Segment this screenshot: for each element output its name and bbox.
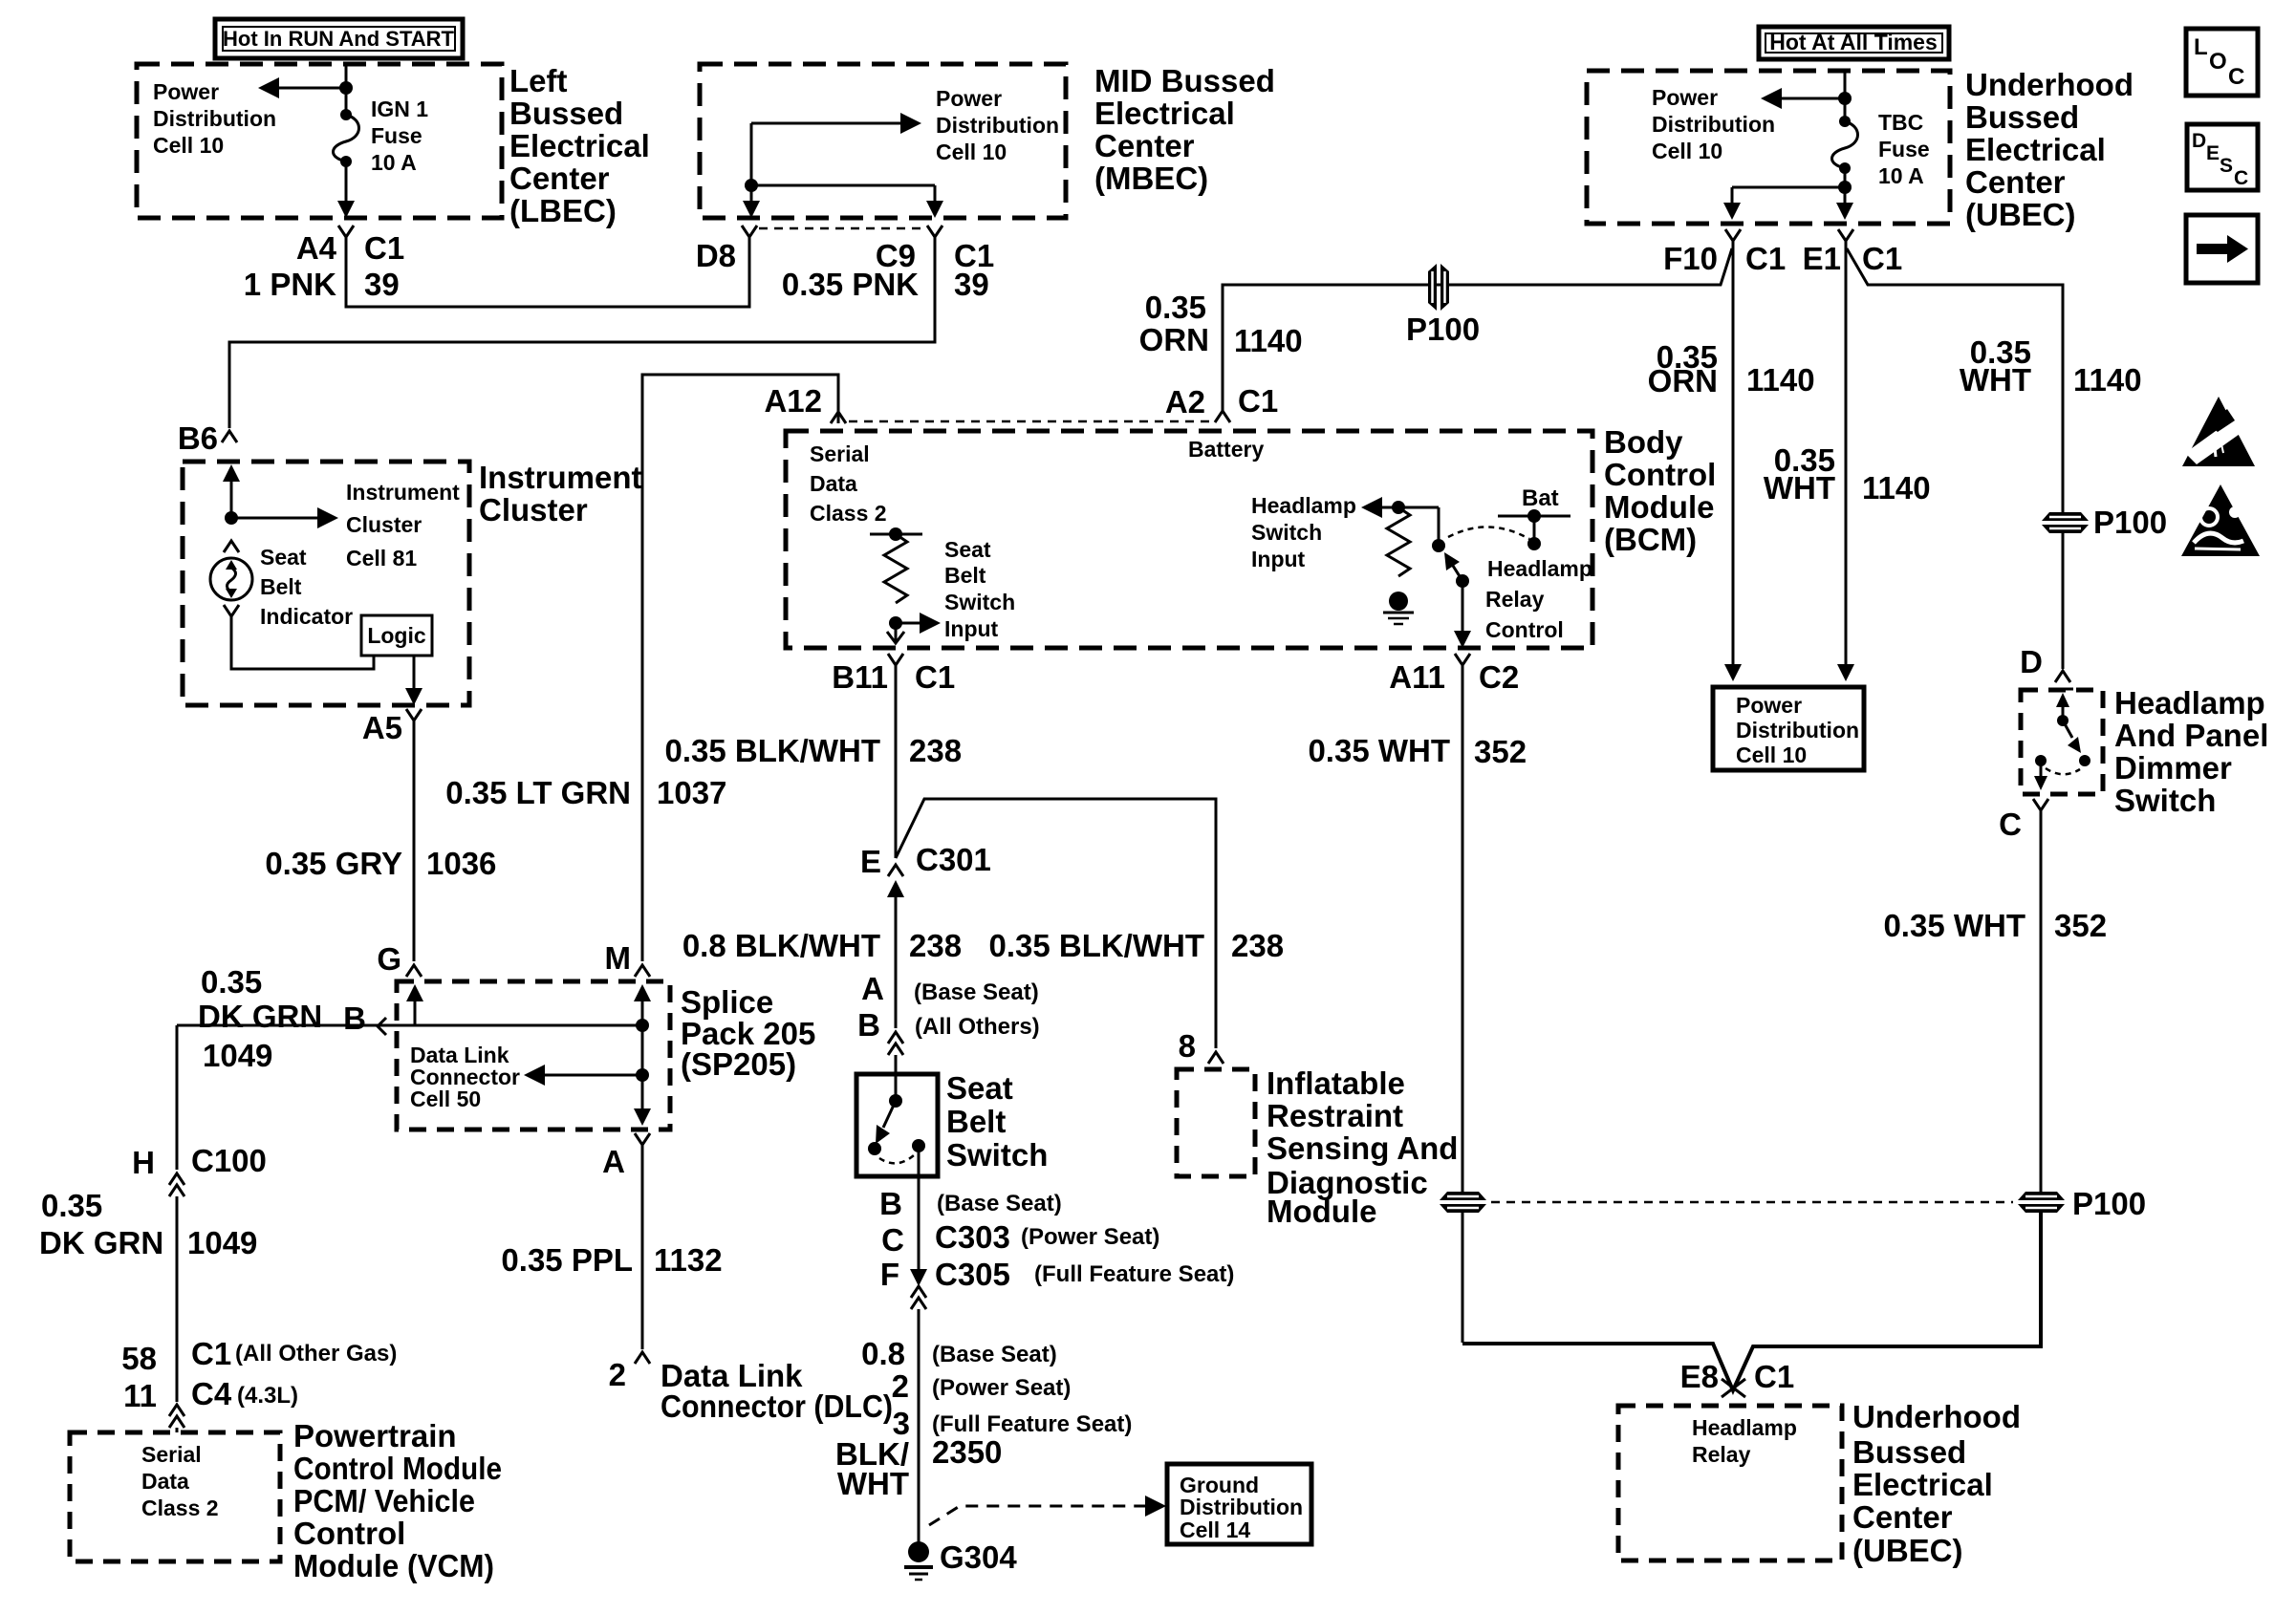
connector A below splice — [635, 1133, 650, 1158]
svg-text:Belt: Belt — [944, 563, 986, 588]
svg-text:Relay: Relay — [1485, 587, 1545, 612]
svg-text:B: B — [857, 1007, 880, 1043]
reference box: Ground Distribution Cell 14 — [1167, 1464, 1311, 1544]
svg-text:Cell 14: Cell 14 — [1180, 1517, 1250, 1542]
svg-text:A5: A5 — [362, 710, 402, 745]
svg-text:0.35: 0.35 — [201, 964, 262, 1000]
svg-text:(UBEC): (UBEC) — [1965, 197, 2075, 232]
svg-text:B: B — [343, 1001, 366, 1036]
label: Serial Data Class 2 (BCM) — [810, 441, 887, 526]
svg-text:A2: A2 — [1165, 384, 1205, 420]
svg-text:Center: Center — [1852, 1499, 1953, 1535]
svg-text:0.35 BLK/WHT: 0.35 BLK/WHT — [988, 928, 1204, 963]
module box: Inflatable Restraint Sensing And Diagnostic Module — [1177, 1069, 1255, 1176]
svg-text:1132: 1132 — [654, 1242, 723, 1278]
svg-text:Center: Center — [509, 161, 610, 196]
svg-text:0.35 PNK: 0.35 PNK — [782, 267, 919, 302]
inline connector P100 (right lower) — [2018, 1192, 2065, 1213]
module box: Underhood Bussed Electrical Center (UBEC) — [1587, 71, 1950, 224]
wire: C100 down to PCM — [176, 1196, 179, 1402]
icon: SIR warning triangle — [2181, 484, 2260, 556]
svg-text:C305: C305 — [935, 1257, 1010, 1292]
svg-text:Body: Body — [1604, 424, 1683, 460]
wire: A2 up and left to P100 and F10 — [1223, 285, 1721, 411]
inline connector P100 (top, vertical) — [1428, 264, 1449, 311]
svg-text:Hot At All Times: Hot At All Times — [1769, 30, 1938, 54]
connector B chevron — [378, 1018, 386, 1035]
label: inflatable restraint name — [1267, 1065, 1458, 1229]
svg-text:C1: C1 — [1754, 1359, 1794, 1394]
svg-text:Connector (DLC): Connector (DLC) — [661, 1388, 893, 1424]
svg-text:D: D — [2192, 130, 2206, 152]
connector A12 — [831, 412, 846, 423]
connector A4 C1 at LBEC — [338, 226, 354, 250]
label: PCM/VCM name — [293, 1418, 502, 1583]
svg-text:A4: A4 — [296, 230, 337, 266]
svg-text:TBC: TBC — [1878, 110, 1923, 135]
svg-text:Control: Control — [1485, 617, 1564, 642]
svg-text:Splice: Splice — [681, 984, 773, 1020]
svg-text:Seat: Seat — [944, 537, 991, 562]
svg-text:IGN 1: IGN 1 — [371, 97, 428, 121]
reference box: Power Distribution Cell 10 — [1713, 687, 1864, 770]
fuse TBC 10 A — [1832, 116, 1858, 174]
label: Instrument Cluster name — [479, 460, 642, 527]
svg-text:(Power Seat): (Power Seat) — [1021, 1224, 1159, 1250]
svg-text:C1: C1 — [1238, 383, 1278, 419]
connector C below dimmer switch — [2033, 799, 2048, 810]
module box: PCM/VCM — [70, 1432, 280, 1561]
module box: Headlamp Relay / UBEC — [1618, 1406, 1842, 1560]
svg-text:C1: C1 — [1862, 241, 1902, 276]
svg-text:Distribution: Distribution — [153, 106, 276, 131]
svg-text:C4: C4 — [191, 1376, 232, 1411]
inline connector P100 (left lower, on A11 wire) — [1440, 1192, 1486, 1213]
svg-text:238: 238 — [909, 733, 962, 768]
svg-text:Distribution: Distribution — [1652, 112, 1775, 137]
svg-text:Data: Data — [141, 1469, 189, 1494]
svg-text:Instrument: Instrument — [346, 480, 460, 505]
svg-text:11: 11 — [123, 1378, 157, 1413]
connector A11 C2 — [1455, 654, 1470, 680]
svg-text:(Full Feature Seat): (Full Feature Seat) — [932, 1411, 1132, 1437]
svg-text:C: C — [1999, 807, 2022, 842]
svg-text:Sensing And: Sensing And — [1267, 1130, 1458, 1166]
svg-text:C303: C303 — [935, 1219, 1010, 1255]
svg-text:DK GRN: DK GRN — [198, 999, 322, 1034]
svg-text:Cell 10: Cell 10 — [936, 140, 1007, 164]
dashed connector link P100 to P100 — [1491, 1201, 2013, 1204]
branch wire to inflatable restraint module — [896, 799, 1216, 1048]
svg-text:Inflatable: Inflatable — [1267, 1065, 1405, 1101]
svg-text:Switch: Switch — [944, 590, 1015, 614]
svg-text:G304: G304 — [940, 1539, 1017, 1575]
svg-text:Class 2: Class 2 — [810, 501, 887, 526]
wire: C down right side — [2040, 810, 2043, 1192]
svg-text:0.35 LT GRN: 0.35 LT GRN — [445, 775, 631, 810]
svg-text:(Full Feature Seat): (Full Feature Seat) — [1034, 1261, 1234, 1287]
seat belt indicator lamp — [210, 558, 252, 600]
svg-text:(Base Seat): (Base Seat) — [937, 1191, 1062, 1216]
label: Seat Belt Switch — [946, 1070, 1048, 1173]
label: Power Distribution Cell 10 (UBEC) — [1652, 85, 1775, 163]
connector B6 at Instrument Cluster — [222, 431, 237, 442]
svg-text:E: E — [860, 844, 881, 879]
svg-text:Cluster: Cluster — [479, 492, 588, 527]
connector D at dimmer switch — [2055, 671, 2070, 682]
svg-text:Distribution: Distribution — [1180, 1495, 1303, 1519]
label: Seat Belt Indicator — [260, 545, 353, 629]
label: TBC Fuse 10 A — [1878, 110, 1930, 188]
svg-text:S: S — [2220, 155, 2233, 177]
switch: headlamp relay control — [1438, 507, 1440, 541]
wire: B11 down — [895, 680, 898, 858]
svg-text:0.8: 0.8 — [861, 1336, 905, 1371]
connector E C301 — [887, 865, 904, 903]
connector B11 C1 — [888, 654, 903, 680]
svg-text:238: 238 — [909, 928, 962, 963]
wire: P100 to D — [2062, 533, 2065, 669]
svg-text:A: A — [602, 1144, 625, 1179]
inline connector P100 (right upper) — [2042, 512, 2089, 533]
svg-text:WHT: WHT — [1764, 470, 1835, 506]
svg-text:C1: C1 — [1745, 241, 1786, 276]
svg-text:A11: A11 — [1389, 659, 1445, 695]
label: Headlamp Relay — [1692, 1415, 1797, 1467]
wire label: 0.35 DK GRN 1049 lower — [39, 1188, 257, 1260]
splice: arrow to Data Link Connector Cell 50 — [636, 1068, 649, 1082]
svg-text:Control: Control — [1604, 457, 1716, 492]
connector M at splice pack — [635, 965, 650, 977]
splice bus: horizontal to B — [177, 1024, 642, 1027]
Logic box — [361, 615, 432, 656]
label: Power Distribution Cell 10 (LBEC) — [153, 79, 276, 158]
svg-text:C2: C2 — [1479, 659, 1519, 695]
svg-text:And Panel: And Panel — [2114, 718, 2268, 753]
svg-text:Electrical: Electrical — [1094, 96, 1235, 131]
label: Data Link Connector (DLC) — [661, 1358, 893, 1424]
svg-text:Fuse: Fuse — [1878, 137, 1930, 161]
svg-text:(All Other Gas): (All Other Gas) — [235, 1341, 397, 1367]
svg-text:D8: D8 — [696, 238, 736, 273]
svg-text:C1: C1 — [364, 230, 404, 266]
arrow to Headlamp Switch Input label — [1361, 497, 1382, 518]
svg-text:(UBEC): (UBEC) — [1852, 1533, 1962, 1568]
svg-text:E1: E1 — [1803, 241, 1841, 276]
svg-text:Power: Power — [1652, 85, 1718, 110]
svg-text:C: C — [881, 1222, 904, 1258]
svg-text:0.35 WHT: 0.35 WHT — [1308, 733, 1450, 768]
svg-text:Underhood: Underhood — [1965, 67, 2134, 102]
connector link A12 to A2 — [849, 420, 1212, 423]
connector A5 — [406, 709, 422, 734]
svg-text:Module (VCM): Module (VCM) — [293, 1548, 494, 1583]
svg-text:Power: Power — [1736, 693, 1802, 718]
connector G at splice pack — [406, 965, 422, 977]
svg-text:Bat: Bat — [1522, 485, 1559, 511]
svg-text:Headlamp: Headlamp — [2114, 685, 2265, 721]
svg-text:1140: 1140 — [2073, 362, 2142, 398]
svg-text:(Base Seat): (Base Seat) — [932, 1342, 1057, 1367]
svg-text:Switch: Switch — [1251, 520, 1322, 545]
node on headlamp feed — [1392, 501, 1405, 514]
svg-text:Data: Data — [810, 471, 857, 496]
svg-text:Indicator: Indicator — [260, 604, 353, 629]
svg-text:0.35 PPL: 0.35 PPL — [501, 1242, 633, 1278]
svg-text:(All Others): (All Others) — [915, 1014, 1040, 1040]
svg-text:10 A: 10 A — [1878, 163, 1924, 188]
svg-text:(BCM): (BCM) — [1604, 522, 1697, 557]
svg-text:Cell 50: Cell 50 — [410, 1087, 481, 1111]
svg-text:Control Module: Control Module — [293, 1451, 502, 1486]
wire: MBEC internal tee — [750, 123, 753, 185]
svg-text:0.35 BLK/WHT: 0.35 BLK/WHT — [664, 733, 880, 768]
svg-text:G: G — [377, 941, 401, 977]
node: junction at fuse top — [339, 81, 353, 95]
svg-text:WHT: WHT — [1960, 362, 2031, 398]
connector 58/11 C1/C4 at PCM — [169, 1405, 184, 1428]
wire: A5 down to G — [413, 734, 416, 961]
svg-text:Serial: Serial — [810, 441, 870, 466]
splice: exit arrow to A — [641, 1075, 644, 1108]
connector F10 C1 — [1725, 229, 1741, 252]
svg-text:Center: Center — [1094, 128, 1195, 163]
svg-text:0.35 WHT: 0.35 WHT — [1883, 908, 2025, 943]
wire: F10 branch to P100/A2 — [1449, 248, 1732, 285]
svg-text:C301: C301 — [916, 842, 991, 877]
label: BCM name — [1604, 424, 1716, 557]
svg-text:1140: 1140 — [1862, 470, 1931, 506]
svg-text:C100: C100 — [191, 1143, 267, 1178]
svg-text:ORN: ORN — [1648, 363, 1718, 398]
arrow to Power Distribution Cell 10 — [277, 87, 346, 90]
svg-text:(4.3L): (4.3L) — [237, 1383, 298, 1409]
ground: BCM internal — [1383, 592, 1414, 624]
svg-text:(SP205): (SP205) — [681, 1046, 796, 1082]
svg-text:WHT: WHT — [837, 1466, 909, 1501]
splice: M entry arrow — [634, 984, 651, 1001]
svg-text:Powertrain: Powertrain — [293, 1418, 457, 1453]
svg-text:B: B — [879, 1186, 902, 1221]
connector A2 C1 — [1215, 411, 1230, 422]
svg-text:Electrical: Electrical — [1965, 132, 2106, 167]
svg-text:E: E — [2206, 142, 2220, 164]
module box: Headlamp And Panel Dimmer Switch — [2021, 690, 2103, 794]
svg-text:Control: Control — [293, 1516, 405, 1551]
svg-text:B11: B11 — [832, 659, 888, 695]
svg-text:Dimmer: Dimmer — [2114, 750, 2232, 785]
arrow to Power Distribution Cell 10 (UBEC) — [1780, 97, 1845, 100]
label: Instrument Cluster Cell 81 — [346, 480, 460, 570]
svg-text:Bussed: Bussed — [509, 96, 623, 131]
svg-text:PCM/ Vehicle: PCM/ Vehicle — [293, 1483, 475, 1518]
wire: resistor to BCM edge — [895, 623, 898, 642]
label: Power Distribution Cell 10 (MBEC) — [936, 86, 1059, 164]
wire: fuse to UBEC edge, twin drops — [1844, 168, 1847, 187]
resistor: Seat Belt Switch Input (BCM) — [870, 527, 922, 630]
label: Serial Data Class 2 (PCM) — [141, 1442, 219, 1520]
svg-text:(Base Seat): (Base Seat) — [914, 979, 1039, 1005]
svg-text:Bussed: Bussed — [1965, 99, 2079, 135]
svg-text:Input: Input — [1251, 547, 1306, 571]
splice: G entry arrow — [406, 984, 423, 1001]
module box: Splice Pack 205 — [397, 981, 670, 1130]
connector chevron below indicator — [224, 605, 239, 616]
connector chevron above indicator — [224, 541, 239, 552]
svg-text:(MBEC): (MBEC) — [1094, 161, 1208, 196]
wire: C301 down to seat belt switch — [895, 903, 898, 1028]
svg-text:Power: Power — [936, 86, 1002, 111]
svg-text:2: 2 — [609, 1357, 626, 1392]
svg-text:1140: 1140 — [1746, 362, 1815, 398]
svg-text:Battery: Battery — [1188, 437, 1264, 462]
svg-text:C1: C1 — [191, 1336, 231, 1371]
svg-text:1049: 1049 — [203, 1038, 272, 1073]
label: Seat Belt Switch Input — [944, 537, 1015, 641]
component box: Seat Belt Switch — [856, 1074, 938, 1176]
connector C303/C305 double chevron — [911, 1286, 926, 1309]
svg-text:Switch: Switch — [2114, 783, 2216, 818]
connector D8 at MBEC — [742, 226, 757, 250]
svg-text:P100: P100 — [2072, 1186, 2146, 1221]
wire: bottom run to E8 — [1462, 1213, 2041, 1390]
svg-text:0.35: 0.35 — [41, 1188, 102, 1223]
label: LBEC name — [509, 63, 650, 228]
svg-text:Belt: Belt — [260, 574, 302, 599]
svg-text:10 A: 10 A — [371, 150, 417, 175]
svg-text:Distribution: Distribution — [936, 113, 1059, 138]
svg-text:Seat: Seat — [260, 545, 307, 570]
svg-text:Left: Left — [509, 63, 568, 98]
svg-text:Relay: Relay — [1692, 1442, 1751, 1467]
svg-text:DK GRN: DK GRN — [39, 1225, 163, 1260]
connector E8 C1 — [1722, 1379, 1745, 1397]
module box: Body Control Module (BCM) — [786, 431, 1592, 648]
label: Data Link Connector Cell 50 — [410, 1043, 520, 1111]
connector above seat belt switch — [888, 1032, 903, 1055]
svg-text:Bussed: Bussed — [1852, 1434, 1966, 1470]
svg-text:P100: P100 — [2093, 505, 2167, 540]
wire: E1 branch to right side — [1847, 248, 2063, 512]
svg-text:A12: A12 — [764, 383, 822, 419]
icon: DESC box — [2187, 124, 2258, 190]
node: cluster tee — [225, 511, 238, 525]
svg-text:E8: E8 — [1680, 1359, 1719, 1394]
resistor: headlamp switch pull — [1387, 507, 1410, 576]
svg-text:B6: B6 — [178, 420, 218, 456]
wire label: 0.35 ORN 1140 (F10) — [1648, 339, 1815, 398]
svg-text:2350: 2350 — [932, 1434, 1002, 1470]
switch: dimmer internals — [2034, 689, 2090, 790]
svg-text:Cluster: Cluster — [346, 512, 422, 537]
wire: C9/C1 down and across to B6 — [229, 250, 935, 428]
svg-text:MID Bussed: MID Bussed — [1094, 63, 1275, 98]
svg-text:Instrument: Instrument — [479, 460, 642, 495]
svg-text:L: L — [2194, 34, 2208, 60]
icon: LOC box — [2186, 29, 2258, 96]
svg-text:O: O — [2209, 49, 2227, 75]
svg-text:39: 39 — [364, 267, 400, 302]
svg-text:Belt: Belt — [946, 1104, 1006, 1139]
connector C9 C1 at MBEC — [927, 226, 942, 250]
svg-text:39: 39 — [954, 267, 989, 302]
svg-text:M: M — [605, 940, 632, 976]
svg-text:F: F — [880, 1257, 899, 1292]
label: UBEC name (bottom) — [1852, 1399, 2021, 1568]
arrow to Power Distribution Cell 10 (MBEC) — [751, 122, 902, 125]
svg-text:H: H — [132, 1145, 155, 1180]
svg-text:Cell 81: Cell 81 — [346, 546, 417, 570]
connector H C100 — [169, 1173, 184, 1196]
svg-text:Headlamp: Headlamp — [1487, 556, 1592, 581]
svg-text:Module: Module — [1267, 1194, 1376, 1229]
svg-text:Serial: Serial — [141, 1442, 202, 1467]
ground G304 — [904, 1541, 933, 1580]
wire: LBEC feed from top edge — [345, 65, 348, 115]
svg-text:8: 8 — [1179, 1028, 1196, 1064]
banner: Hot In RUN And START — [215, 19, 463, 58]
wire: indicator to Logic box — [231, 616, 374, 669]
svg-text:Center: Center — [1965, 164, 2066, 200]
label: Headlamp Switch Input — [1251, 493, 1356, 571]
svg-text:352: 352 — [2054, 908, 2107, 943]
svg-text:Underhood: Underhood — [1852, 1399, 2021, 1434]
svg-text:Headlamp: Headlamp — [1251, 493, 1356, 518]
svg-text:Input: Input — [944, 616, 999, 641]
label: MBEC name — [1094, 63, 1275, 196]
module box: Instrument Cluster — [183, 462, 469, 705]
svg-text:1140: 1140 — [1234, 323, 1303, 358]
label: IGN 1 Fuse 10 A — [371, 97, 428, 175]
wire: A11 down through P100 — [1462, 680, 1464, 1192]
wire: splice B to H/C100 — [176, 1025, 179, 1170]
svg-text:Logic: Logic — [367, 623, 426, 648]
label: dimmer switch name — [2114, 685, 2268, 818]
svg-text:1 PNK: 1 PNK — [244, 267, 336, 302]
svg-text:0.35: 0.35 — [1145, 290, 1206, 325]
wire: A4 to D8 — [346, 248, 749, 307]
svg-text:C: C — [2234, 167, 2248, 189]
svg-text:ORN: ORN — [1139, 322, 1209, 357]
svg-text:D: D — [2020, 644, 2043, 679]
svg-text:Fuse: Fuse — [371, 123, 422, 148]
wire: A down to DLC pin 2 — [641, 1158, 644, 1349]
wire: E1 straight down to cell 10 box — [1845, 252, 1848, 666]
banner: Hot At All Times — [1759, 27, 1949, 59]
svg-text:Hot In RUN And START: Hot In RUN And START — [223, 27, 455, 51]
module box: MID Bussed Electrical Center (MBEC) — [700, 64, 1066, 218]
svg-text:Electrical: Electrical — [509, 128, 650, 163]
wire label: 0.35 DK GRN 1049 upper — [198, 964, 322, 1073]
icon: ESD warning triangle — [2182, 397, 2255, 466]
svg-text:Distribution: Distribution — [1736, 718, 1859, 742]
label: UBEC name (top) — [1965, 67, 2134, 232]
svg-text:Cell 10: Cell 10 — [1652, 139, 1722, 163]
connector link D8 to C9 (same connector) — [759, 227, 923, 230]
switch throw arc (dashed) — [1448, 527, 1529, 539]
wire: B6 entry arrow into cluster — [223, 464, 240, 482]
label: Splice Pack 205 (SP205) — [681, 984, 815, 1082]
svg-text:0.8 BLK/WHT: 0.8 BLK/WHT — [682, 928, 880, 963]
svg-text:Restraint: Restraint — [1267, 1098, 1403, 1133]
wire: Logic to A5 with arrow — [413, 656, 416, 690]
svg-text:A: A — [861, 971, 884, 1006]
svg-text:352: 352 — [1474, 734, 1527, 769]
svg-text:Power: Power — [153, 79, 219, 104]
connector E1 C1 — [1838, 229, 1853, 252]
svg-text:2: 2 — [892, 1368, 909, 1404]
svg-text:1037: 1037 — [657, 775, 726, 810]
